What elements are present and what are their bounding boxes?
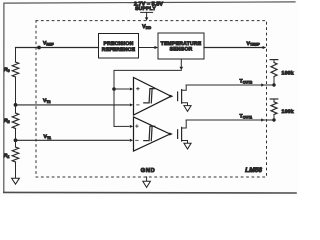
VT1 wire (threshold 1 input) <box>16 139 130 141</box>
ground (Q2 source) <box>184 106 191 112</box>
svg-text:LM56: LM56 <box>245 167 262 174</box>
wire R2 to VT1 node <box>15 129 17 148</box>
resistor R2 <box>12 113 18 129</box>
wire R3 to VT2 node <box>15 77 17 113</box>
VREF wire <box>16 47 99 49</box>
resistor R3 <box>12 62 18 77</box>
TOUT2 output wire <box>186 83 274 86</box>
svg-text:GND: GND <box>141 167 156 174</box>
wire R1 to ground <box>15 162 17 178</box>
VTEMP output wire <box>204 46 266 49</box>
svg-text:SENSOR: SENSOR <box>170 47 193 53</box>
svg-text:SUPPLY: SUPPLY <box>135 6 156 12</box>
VREF pin dot <box>37 46 41 50</box>
transistor Q1 (lower output FET) <box>169 120 187 144</box>
svg-text:REFERENCE: REFERENCE <box>102 47 136 53</box>
VT2 junction dot on divider <box>14 103 18 107</box>
temperature sensor block <box>158 33 204 59</box>
ground (left divider) <box>12 178 20 184</box>
comparator U1 (upper, with hysteresis) <box>114 78 171 116</box>
wire precision reference to temperature sensor <box>139 46 159 49</box>
GND pin wire and ground arrow <box>143 177 151 188</box>
svg-text:100k: 100k <box>282 109 294 115</box>
dashed IC boundary (LM56 package) <box>36 21 267 177</box>
divider chain wire (VREF to ground) <box>15 48 17 63</box>
VDD pin (supply rail bar, wire, arrow) <box>141 12 153 20</box>
resistor R1 <box>12 147 18 162</box>
pullup resistor 100k on TOUT1 <box>270 99 278 122</box>
transistor Q2 (upper output FET) <box>170 85 188 106</box>
comparator U2 (lower, with hysteresis) <box>114 117 170 151</box>
wire temp sensor output down to comparator bus <box>114 59 183 126</box>
svg-text:100k: 100k <box>282 71 294 77</box>
TOUT1 output wire <box>186 118 274 121</box>
precision reference block <box>99 34 139 59</box>
pullup resistor 100k on TOUT2 <box>270 60 278 87</box>
ground (Q1 source) <box>184 143 191 149</box>
figure frame <box>4 2 296 193</box>
VT2 wire (threshold 2 input) <box>16 104 130 106</box>
VT1 junction dot on divider <box>14 138 18 142</box>
bus junction dot (comparator 1 + input) <box>112 87 116 91</box>
